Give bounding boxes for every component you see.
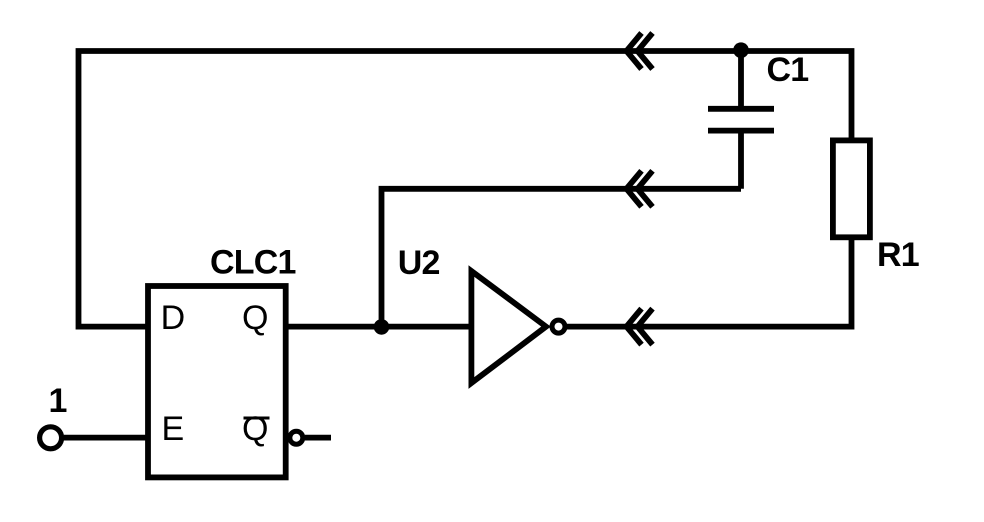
wire U2 output to R1 bottom: [566, 237, 852, 326]
svg-text:U2: U2: [398, 244, 440, 282]
svg-text:Q: Q: [242, 410, 268, 448]
svg-text:E: E: [162, 410, 185, 448]
svg-text:D: D: [161, 299, 186, 337]
svg-text:C1: C1: [767, 51, 809, 89]
wire Qbar stub: [305, 435, 331, 441]
svg-text:CLC1: CLC1: [210, 244, 296, 282]
wire feedback loop: D input, left vertical, top horizontal, right vertical to R1: [79, 51, 852, 327]
arrow marker chevron on top wire: [627, 33, 653, 69]
capacitor C1 bottom plate: [708, 128, 774, 134]
wire middle horizontal from C1 down-left to U2 input net: [382, 189, 742, 327]
svg-text:Q: Q: [242, 299, 268, 337]
svg-text:1: 1: [49, 382, 67, 420]
svg-text:R1: R1: [877, 236, 919, 274]
op-amp U2 inverter triangle: [471, 271, 546, 383]
arrow marker chevron on output wire: [627, 309, 653, 345]
op-amp U2 output bubble: [552, 320, 565, 333]
wire Q output from CLC1 to inverter input: [286, 324, 471, 330]
node junction dot on Q net: [374, 319, 390, 335]
arrow marker chevron on middle wire: [627, 171, 653, 207]
flip-flop CLC1 box: [148, 286, 286, 477]
capacitor C1 top plate: [708, 106, 774, 112]
resistor R1 body: [833, 140, 870, 237]
flip-flop CLC1 Qbar bubble: [290, 431, 303, 444]
wire C1 bottom lead: [738, 131, 744, 189]
terminal 1 circle: [40, 427, 62, 449]
wire C1 top lead: [738, 51, 744, 109]
node junction dot at C1 tap on top wire: [733, 42, 749, 58]
wire E input: [64, 435, 148, 441]
Qbar overline bar: [244, 417, 270, 420]
